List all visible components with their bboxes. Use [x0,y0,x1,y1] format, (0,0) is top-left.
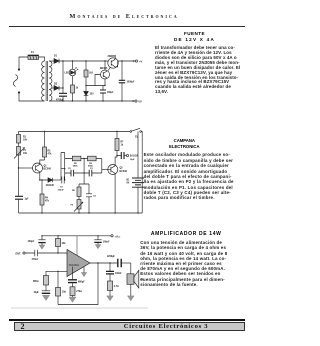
twin-T centre column [79,159,89,185]
input terminal ENT [16,252,26,256]
wire bottom rail [49,100,136,102]
header rule [9,26,245,27]
junction dots schematic 2 [18,131,139,214]
svg-text:680k: 680k [73,166,79,168]
resistor R2 [84,61,94,86]
diode D1 [54,55,59,64]
rail top s2 [19,131,131,133]
output wire [90,262,117,264]
svg-text:4Ω: 4Ω [140,278,143,281]
svg-text:R7: R7 [121,142,125,144]
svg-text:B1: B1 [127,180,131,182]
svg-text:C3: C3 [90,168,94,170]
faint separator shadow [11,307,148,309]
zobel resistor 2.7 [107,274,119,301]
capacitor 680uF [68,267,85,287]
svg-text:F1: F1 [31,51,34,54]
resistor R100 [56,288,67,305]
rail bottom s2 [19,212,143,214]
svg-text:+V: +V [139,60,143,64]
svg-text:10k: 10k [23,140,28,142]
svg-text:470nF: 470nF [32,258,39,261]
svg-text:10µF: 10µF [34,292,40,294]
svg-text:Q1: Q1 [44,166,48,168]
svg-text:R8: R8 [72,190,76,192]
wire P1 to Q1 base [19,167,33,169]
feedback wire [46,271,67,287]
potentiometer P2 [71,197,84,214]
svg-text:100nF: 100nF [103,242,110,244]
svg-text:LED: LED [65,73,70,75]
text block 1 title [150,31,240,42]
transistor Q1 s2 [33,163,52,173]
svg-text:2200µF: 2200µF [107,256,116,258]
svg-text:C4: C4 [93,195,97,198]
capacitor C4 s2 [86,184,97,213]
svg-text:100nF: 100nF [115,273,122,275]
text block 2 body [144,152,232,200]
zener diode ZD1 [84,86,94,102]
capacitor C2 s2 [68,168,74,176]
wire AC bottom to primary [19,93,45,102]
zobel capacitor 100nF [106,263,122,275]
svg-text:100µF: 100µF [28,241,35,243]
potentiometer P1 [14,147,28,159]
speaker LS1 [127,263,144,301]
ground op-amp [81,267,87,277]
diode D1 s2 [46,178,55,187]
svg-text:1µF: 1µF [25,199,30,201]
svg-text:680Ω: 680Ω [33,280,39,283]
wire secondary top to D1 [49,60,54,62]
capacitor C11 100nF [94,236,110,249]
svg-text:SALIDA: SALIDA [130,155,139,158]
wire AC top to fuse [19,57,28,70]
twin-T frame [65,153,102,181]
svg-text:47k: 47k [48,153,53,156]
transistor Q1 2N3055 [108,55,119,71]
svg-text:13V: 13V [90,94,95,96]
junction dots schematic 1 [62,60,134,102]
resistor R4 s2 [40,180,50,213]
footer book title [100,323,232,330]
op-amp supply pin [76,236,78,258]
wire Q1 collector [40,160,45,164]
header masthead [0,13,250,20]
wire top rail [59,60,137,62]
output terminal +V [135,60,142,64]
resistor R10k [56,236,67,253]
svg-text:100nF: 100nF [58,190,65,192]
svg-text:R1: R1 [23,137,27,139]
battery B1 [127,132,145,214]
resistor R6 [88,156,97,167]
svg-text:D1: D1 [54,55,58,58]
resistor R8 center [72,184,81,197]
svg-text:C9: C9 [60,187,64,189]
resistor R5 [72,156,81,167]
svg-text:1k: 1k [121,145,124,147]
text block 2 title [139,138,229,149]
svg-text:1k: 1k [76,88,79,90]
capacitor C2 [100,86,114,102]
rail left s2 [18,132,20,214]
resistor R1 s2 [17,135,28,144]
switch S1 [130,128,142,213]
svg-text:10k: 10k [62,243,67,245]
transistor Q2 s2 [102,165,128,175]
svg-text:C2: C2 [68,168,72,170]
wire secondary mid tap to D2 [52,87,55,89]
capacitor C7 s2 [53,177,65,192]
footer page number [21,322,25,331]
twin-T input wire [61,153,65,181]
svg-text:R4: R4 [45,197,49,200]
resistor R2 s2 [43,132,53,161]
svg-text:2N3055: 2N3055 [108,55,117,58]
transformer T1 [42,61,52,101]
capacitor Cin 470nF [25,250,67,261]
svg-text:680µF: 680µF [78,282,85,284]
ground R270 [69,297,76,302]
svg-text:Q2: Q2 [120,168,124,170]
footer thick rule [9,319,245,321]
diode D2 [54,83,59,91]
svg-text:P2: P2 [71,205,74,207]
wire D2 to top rail [59,61,63,88]
svg-text:R2: R2 [48,151,52,153]
svg-text:1k5: 1k5 [89,73,94,75]
resistor R7 s2 [115,132,124,156]
wire Q1 emitter to D1 [40,172,48,180]
svg-text:BC548: BC548 [44,168,52,171]
AC source V1 [13,68,20,93]
capacitor C1 s2 [15,196,29,200]
footer gray bar [14,322,245,332]
capacitor C1 4700uF [56,88,67,101]
resistor R680 [33,276,49,286]
svg-text:10k: 10k [23,153,28,155]
op-amp U1 TDA1510 [67,250,90,277]
svg-text:47k: 47k [45,200,50,203]
text block 1 body [155,46,235,95]
svg-text:10Ω: 10Ω [62,290,67,293]
svg-text:270Ω: 270Ω [76,290,82,293]
svg-text:BD135: BD135 [100,68,108,70]
capacitor 2200uF [107,256,131,267]
output terminal 0V [135,100,142,104]
svg-text:100µF: 100µF [107,92,114,94]
resistor R270 [70,287,82,297]
svg-text:D2: D2 [54,83,58,86]
LED D3 [65,61,79,76]
svg-text:1000µF: 1000µF [127,82,136,84]
capacitor 10uF [34,285,51,301]
svg-text:2.7Ω: 2.7Ω [114,285,119,288]
svg-text:9V: 9V [127,183,130,185]
capacitor C10 100uF [28,236,46,249]
text block 3 title [141,232,231,238]
svg-text:10µF: 10µF [130,159,136,161]
+Vcc terminal [111,235,121,239]
resistor R1 [71,76,79,101]
svg-text:0V: 0V [139,100,142,104]
capacitor C3 s2 [89,168,93,176]
svg-text:TDA1510: TDA1510 [69,264,80,267]
rail top s3 [42,235,111,237]
capacitor C3 [119,61,135,101]
svg-text:BC548: BC548 [120,170,128,173]
capacitor C5 output [117,152,139,161]
wire Q2 collector [115,156,117,214]
text block 3 body [140,240,232,287]
wire fuse to primary [39,57,45,61]
transistor Q2 BD135 [100,61,110,86]
feedback rectangle wire [58,263,98,305]
svg-text:+VCC: +VCC [115,235,121,238]
svg-text:1N4148: 1N4148 [46,184,55,187]
svg-text:ENT.: ENT. [16,253,22,256]
svg-text:P1: P1 [23,150,27,152]
junction dots schematic 3 [41,235,110,272]
wire base node [86,75,105,86]
fuse F1 [28,51,39,59]
